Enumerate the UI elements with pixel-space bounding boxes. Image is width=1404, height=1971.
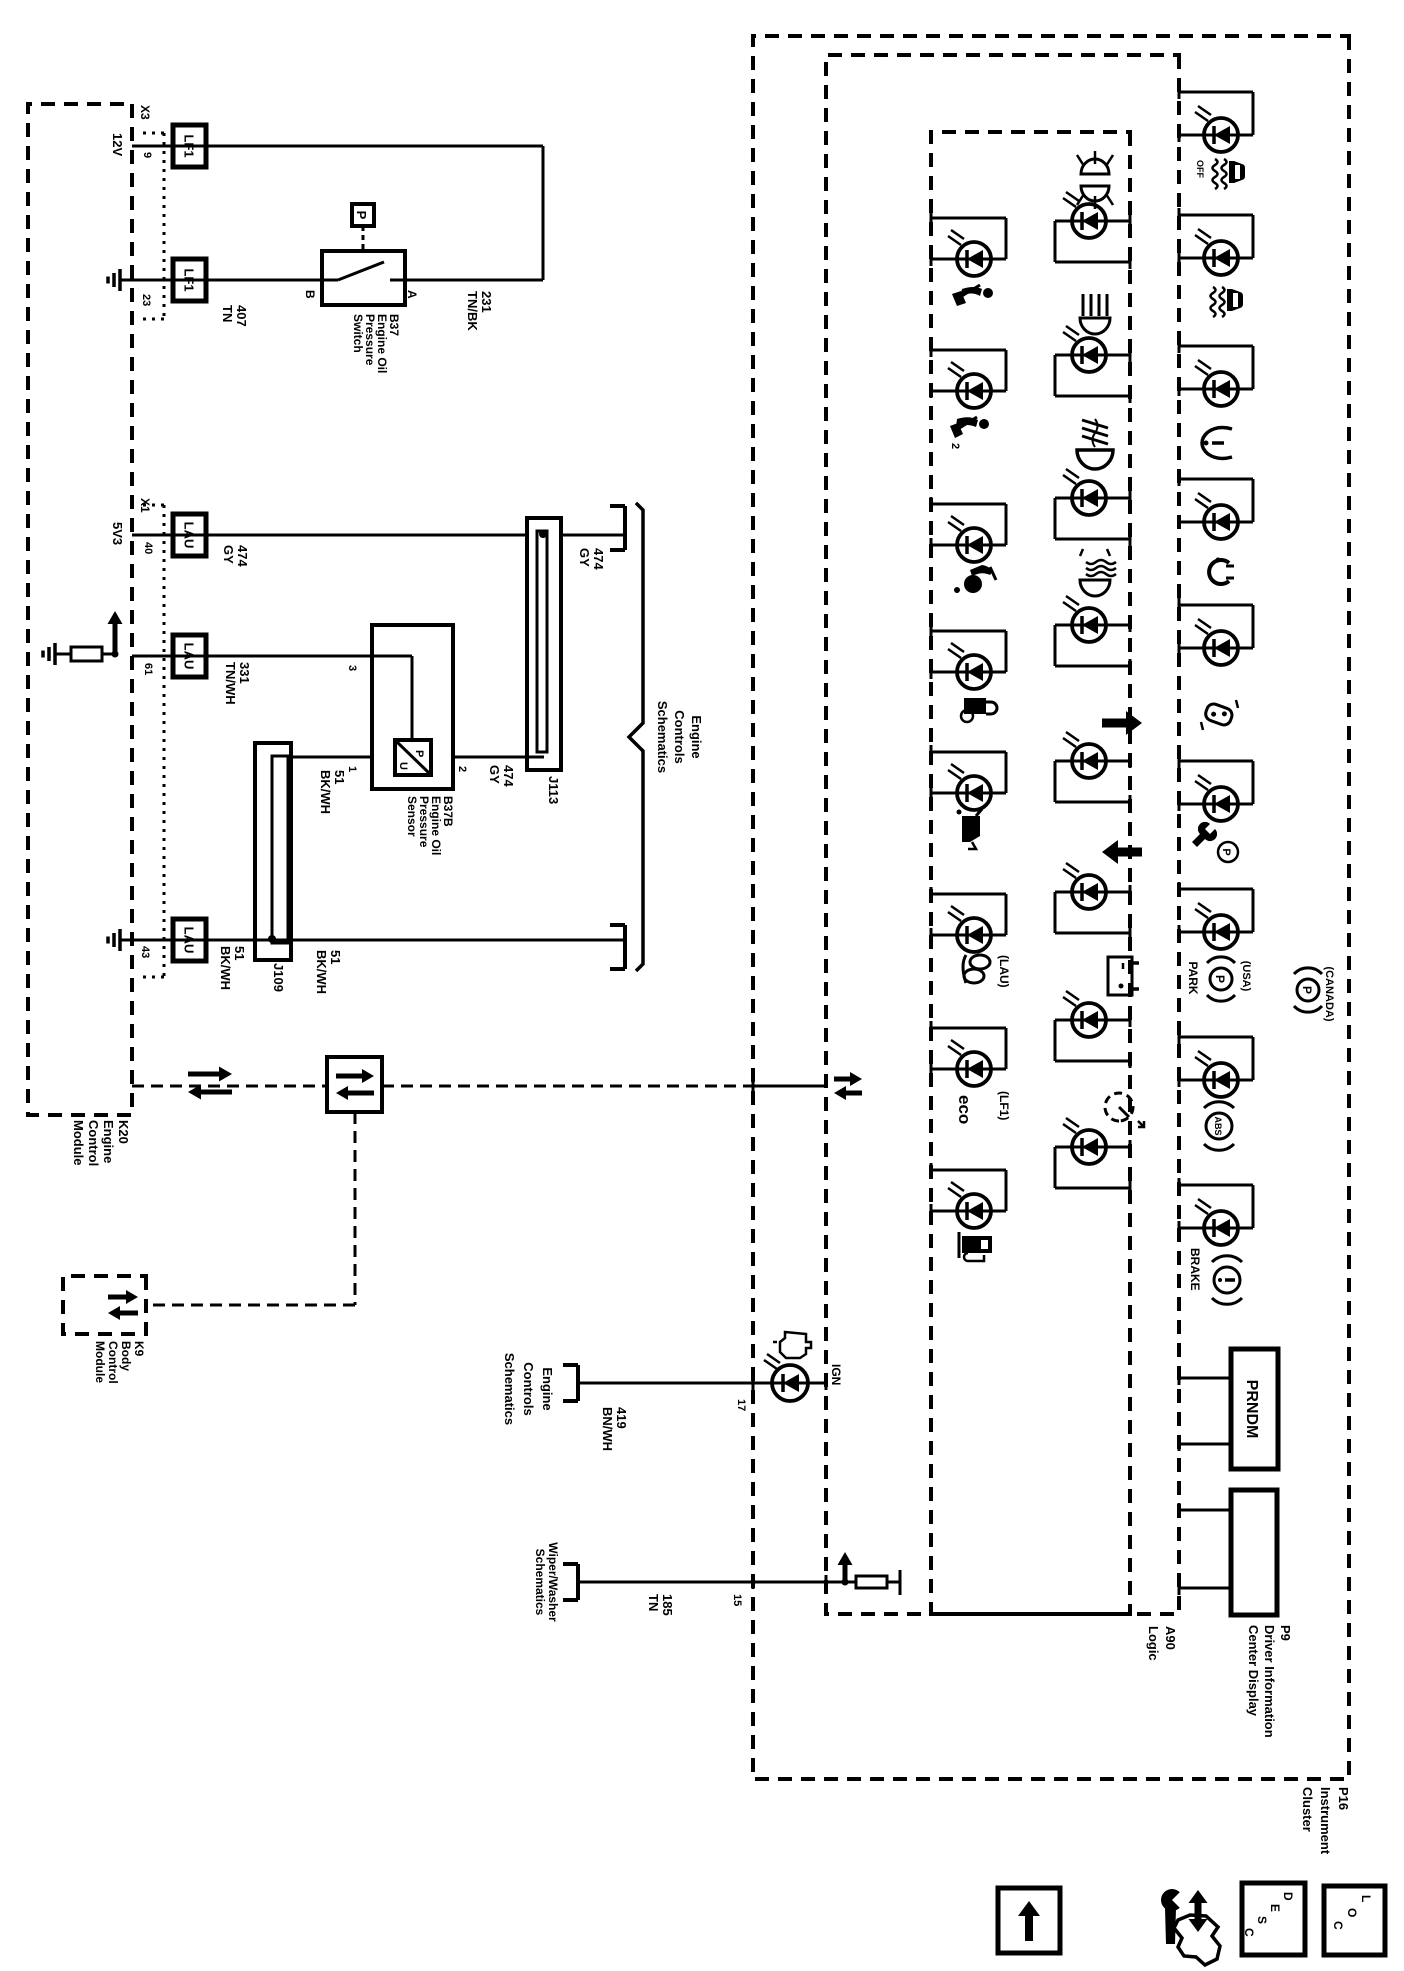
svg-text:(USA): (USA) [1240,961,1252,992]
lamp airbag 2 indicator [931,349,1006,352]
lamp fuel indicator [931,1169,1006,1172]
svg-text:P: P [354,211,369,220]
svg-text:B: B [303,290,317,299]
svg-text:P: P [1300,986,1314,994]
junction dot wire 474 at J113 [539,530,547,538]
pressure actuator symbol P box [352,204,374,226]
icon airbag row2 [979,419,989,429]
svg-text:L: L [1359,1895,1373,1902]
svg-text:9: 9 [141,152,153,158]
lamp seat belt indicator [931,217,1006,220]
icon service park brake [1218,842,1238,862]
svg-text:K9: K9 [132,1341,146,1357]
serial data branch to K9 [354,1112,357,1305]
svg-text:LF1: LF1 [182,268,197,291]
svg-text:15: 15 [731,1594,743,1606]
svg-text:O: O [1345,1908,1359,1917]
wire 474 GY pin 40 [132,534,527,537]
arrow voltage feed pin 15 [843,1565,848,1582]
lamp security indicator [931,630,1006,633]
dashed actuator link [362,226,365,251]
svg-text:51: 51 [232,946,247,960]
icon park brake CANADA [1297,979,1319,1001]
icon up arrow [1102,719,1126,728]
icon key fob [1204,702,1234,727]
svg-text:Module: Module [93,1341,107,1383]
sensor element P/U box [395,740,431,775]
off-page stub 185 TN wiper/washer [576,1564,580,1600]
svg-text:40: 40 [142,542,154,554]
svg-text:BN/WH: BN/WH [600,1407,615,1451]
serial data gateway box X84 [327,1057,382,1112]
svg-text:51: 51 [332,770,347,784]
lamp stabilitrak off indicator [1179,91,1253,94]
hotlink LOC box [1324,1886,1385,1955]
svg-text:TN: TN [646,1594,661,1611]
hotlink wrench and direction icon [1161,1889,1183,1911]
lamp service park brake indicator [1179,760,1253,763]
lamp stabilitrak indicator [1179,214,1253,217]
switch B37 blade [338,262,384,280]
lamp park brake USA indicator [1179,888,1253,891]
svg-text:PARK: PARK [1186,961,1200,994]
svg-text:(LAU): (LAU) [997,955,1011,988]
svg-text:BRAKE: BRAKE [1188,1248,1202,1291]
lamp key fob indicator [1179,604,1253,607]
lamp high beam indicator [1055,261,1130,264]
connector X3 dotted line [163,133,166,319]
svg-text:51: 51 [328,950,343,964]
icon fuel pump [962,1236,992,1253]
svg-text:Schematics: Schematics [502,1353,517,1425]
wire 474 GY to engine controls stub [561,534,625,537]
svg-text:Engine: Engine [689,715,704,758]
svg-text:TN: TN [220,305,235,322]
wire 51 BK/WH pin 43 [120,939,625,942]
svg-text:Switch: Switch [351,314,365,353]
connector LAU pin 61 [173,635,206,677]
svg-text:12V: 12V [110,133,125,156]
off-page stub 419 BN/WH engine controls [576,1365,580,1401]
svg-text:TN/BK: TN/BK [465,291,480,331]
switch B37 terminal A stub [390,279,405,282]
display P9 driver information center box [1231,1490,1277,1615]
resistor inside A90 pin 15 [856,1576,887,1588]
icon front fog [1077,450,1113,469]
svg-text:BK/WH: BK/WH [218,946,233,990]
svg-text:5V3: 5V3 [110,522,125,545]
svg-text:474: 474 [591,548,606,570]
svg-text:474: 474 [501,765,516,787]
icon down arrow [1118,848,1142,857]
hotlink DESC box [1242,1883,1305,1955]
svg-text:Engine: Engine [540,1367,555,1410]
svg-text:BK/WH: BK/WH [318,770,333,814]
svg-text:ABS: ABS [1213,1116,1223,1135]
svg-text:Wiper/Washer: Wiper/Washer [546,1542,560,1622]
svg-text:331: 331 [237,662,252,684]
resistor inside ECM pin 61 [132,653,142,655]
icon auto lamp ring [1209,560,1229,584]
svg-text:LAU: LAU [182,522,197,549]
icon high beam [1080,318,1110,334]
svg-text:P16: P16 [1336,1787,1351,1810]
connector LAU pin 40 [173,514,206,556]
lamp headlamp indicator [1055,395,1130,398]
svg-text:231: 231 [479,291,494,313]
splice pack J109 [255,743,291,960]
svg-text:X3: X3 [138,105,152,120]
wire 231 TN/BK [405,279,543,282]
svg-text:C: C [1331,1921,1345,1930]
tick at P16 edge serial [752,1079,755,1093]
splice pack J113 [527,518,561,770]
icon airbag person with circle [970,565,992,576]
wire 419 BN/WH [578,1382,753,1385]
icon rear fog [1080,580,1110,596]
connector LF1 pin 9 [173,125,206,167]
svg-text:PRNDM: PRNDM [1243,1380,1260,1439]
lamp eco indicator [931,1027,1006,1030]
svg-text:A: A [405,290,419,299]
lamp oil pressure indicator [931,751,1006,754]
svg-text:GY: GY [221,545,236,564]
svg-text:Logic: Logic [1146,1626,1161,1661]
icon low tire pressure [1202,428,1232,459]
svg-text:Module: Module [71,1120,86,1166]
off-page stub 474 GY engine controls [623,506,627,550]
connector X1 dotted line [163,505,166,977]
svg-text:P: P [1220,848,1232,855]
lamp front fog indicator [1055,538,1130,541]
svg-text:(LF1): (LF1) [997,1091,1011,1120]
icon speed gauge [1105,1093,1133,1121]
ground inside ECM for pin 23 [118,269,122,291]
svg-text:Controls: Controls [521,1362,536,1415]
lamp downshift indicator [1055,932,1130,935]
engine control module K20 dashed box [28,104,132,1115]
svg-text:P: P [1213,975,1227,983]
wire 474 GY sensor pin 2 [453,756,544,759]
svg-text:Schematics: Schematics [533,1549,547,1616]
svg-text:E: E [1268,1904,1282,1912]
icon parking lamps [1081,159,1109,174]
switch B37 terminal B stub [322,279,338,282]
serial data wire K20 to gateway [132,1085,327,1088]
lamp auto lamp indicator [1179,478,1253,481]
svg-text:61: 61 [142,663,154,675]
svg-text:23: 23 [140,294,152,306]
lamp low tire pressure indicator [1179,345,1253,348]
arrow voltage feed pin 61 [113,624,118,654]
wire 407 TN [120,279,322,282]
svg-text:S: S [1255,1916,1269,1924]
icon stabilitrak car [1227,289,1243,311]
svg-text:J109: J109 [271,963,286,992]
svg-text:Control: Control [86,1120,101,1166]
svg-text:2: 2 [949,443,961,449]
tick at A90 edge pin 15 [825,1575,828,1589]
engine icon for IGN lamp [780,1332,811,1358]
svg-text:GY: GY [577,548,592,567]
lamp glow plug indicator [931,893,1006,896]
hotlink arrow box [998,1888,1060,1953]
svg-text:A90: A90 [1163,1626,1178,1650]
lamp charge indicator [1055,1060,1130,1063]
sensor B37B box [372,625,453,789]
connector LF1 pin 23 [173,259,206,301]
lamp airbag indicator [931,503,1006,506]
serial data arrows at A90 [834,1077,850,1082]
junction dot wire 51 at J109 [268,935,276,943]
svg-text:Control: Control [106,1341,120,1384]
connector LAU pin 43 [173,919,206,961]
svg-text:P: P [413,750,425,757]
display PRNDM box [1231,1349,1278,1469]
icon park brake USA [1210,968,1232,990]
svg-text:LAU: LAU [182,927,197,954]
svg-text:IGN: IGN [829,1364,843,1385]
icon seat belt [983,288,993,298]
svg-text:Body: Body [119,1341,133,1371]
svg-text:J113: J113 [546,776,561,804]
svg-text:K20: K20 [116,1120,131,1144]
svg-text:Driver Information: Driver Information [1262,1625,1277,1738]
P9 wires [1179,1509,1231,1512]
off-page stub 51 BK/WH engine controls [623,925,627,969]
svg-text:(CANADA): (CANADA) [1323,967,1335,1022]
pressure switch B37 box [322,251,405,305]
svg-text:185: 185 [660,1594,675,1616]
svg-text:eco: eco [955,1095,974,1124]
lamp brake warning indicator [1179,1184,1253,1187]
junction dot pin 15 [842,1579,849,1586]
wire 185 TN [578,1581,845,1584]
tick at P16 edge pin 15 [752,1575,755,1589]
ground inside ECM for pin 61 [53,643,57,665]
svg-text:Engine: Engine [101,1120,116,1163]
serial data arrows in K9 [108,1295,126,1300]
tick at P16 edge pin 17 [752,1376,755,1390]
junction dot pin 61 [112,651,119,658]
svg-text:TN/WH: TN/WH [223,662,238,705]
svg-text:Instrument: Instrument [1318,1787,1333,1855]
svg-text:U: U [397,762,409,770]
svg-text:419: 419 [614,1407,629,1429]
svg-text:P9: P9 [1278,1625,1293,1641]
icon ABS [1206,1113,1232,1139]
lamp ABS indicator [1179,1036,1253,1039]
instrument cluster P16 dashed box [753,36,1349,1779]
svg-text:2: 2 [456,766,468,772]
icon stabilitrak off car [1229,161,1245,183]
body control module K9 dashed box [63,1276,146,1334]
svg-text:GY: GY [487,765,502,784]
ground inside ECM for pin 43 [118,929,122,951]
svg-text:Cluster: Cluster [1300,1787,1315,1832]
lamp upshift indicator [1055,801,1130,804]
svg-text:43: 43 [139,946,151,958]
svg-text:Schematics: Schematics [655,701,670,773]
svg-text:Center Display: Center Display [1246,1625,1261,1717]
wire 51 BK/WH sensor pin 1 [288,756,372,759]
wire 12V feed ECM pin 9 [132,145,543,148]
svg-text:17: 17 [735,1399,747,1411]
svg-text:Controls: Controls [672,710,687,763]
PRNDM wires [1179,1377,1231,1380]
icon battery [1108,957,1132,995]
brace engine controls schematics [636,503,643,510]
svg-text:C: C [1242,1928,1256,1937]
svg-text:Sensor: Sensor [405,796,419,837]
svg-text:D: D [1281,1892,1295,1901]
svg-text:474: 474 [235,545,250,567]
svg-text:407: 407 [234,305,249,327]
svg-text:LAU: LAU [182,643,197,670]
icon security [964,698,986,714]
logic sub-block dashed box (A90 Logic) [931,132,1130,1614]
svg-text:BK/WH: BK/WH [314,950,329,994]
lamp speed warning indicator [1055,1187,1130,1190]
svg-text:OFF: OFF [1195,160,1205,178]
cluster logic module A90 dashed box [826,55,1179,1614]
IGN indicator lamp [753,1382,772,1385]
icon oil can [962,816,980,842]
icon brake warning [1214,1267,1240,1293]
lamp rear fog indicator [1055,665,1130,668]
svg-text:LF1: LF1 [182,134,197,157]
wire 331 TN/WH pin 61 to sensor pin 3 [132,655,372,658]
serial data arrows at K20 [188,1072,219,1077]
serial data wire gateway to cluster [382,1085,745,1088]
icon glow plug loops [970,955,990,969]
svg-text:3: 3 [346,665,358,671]
